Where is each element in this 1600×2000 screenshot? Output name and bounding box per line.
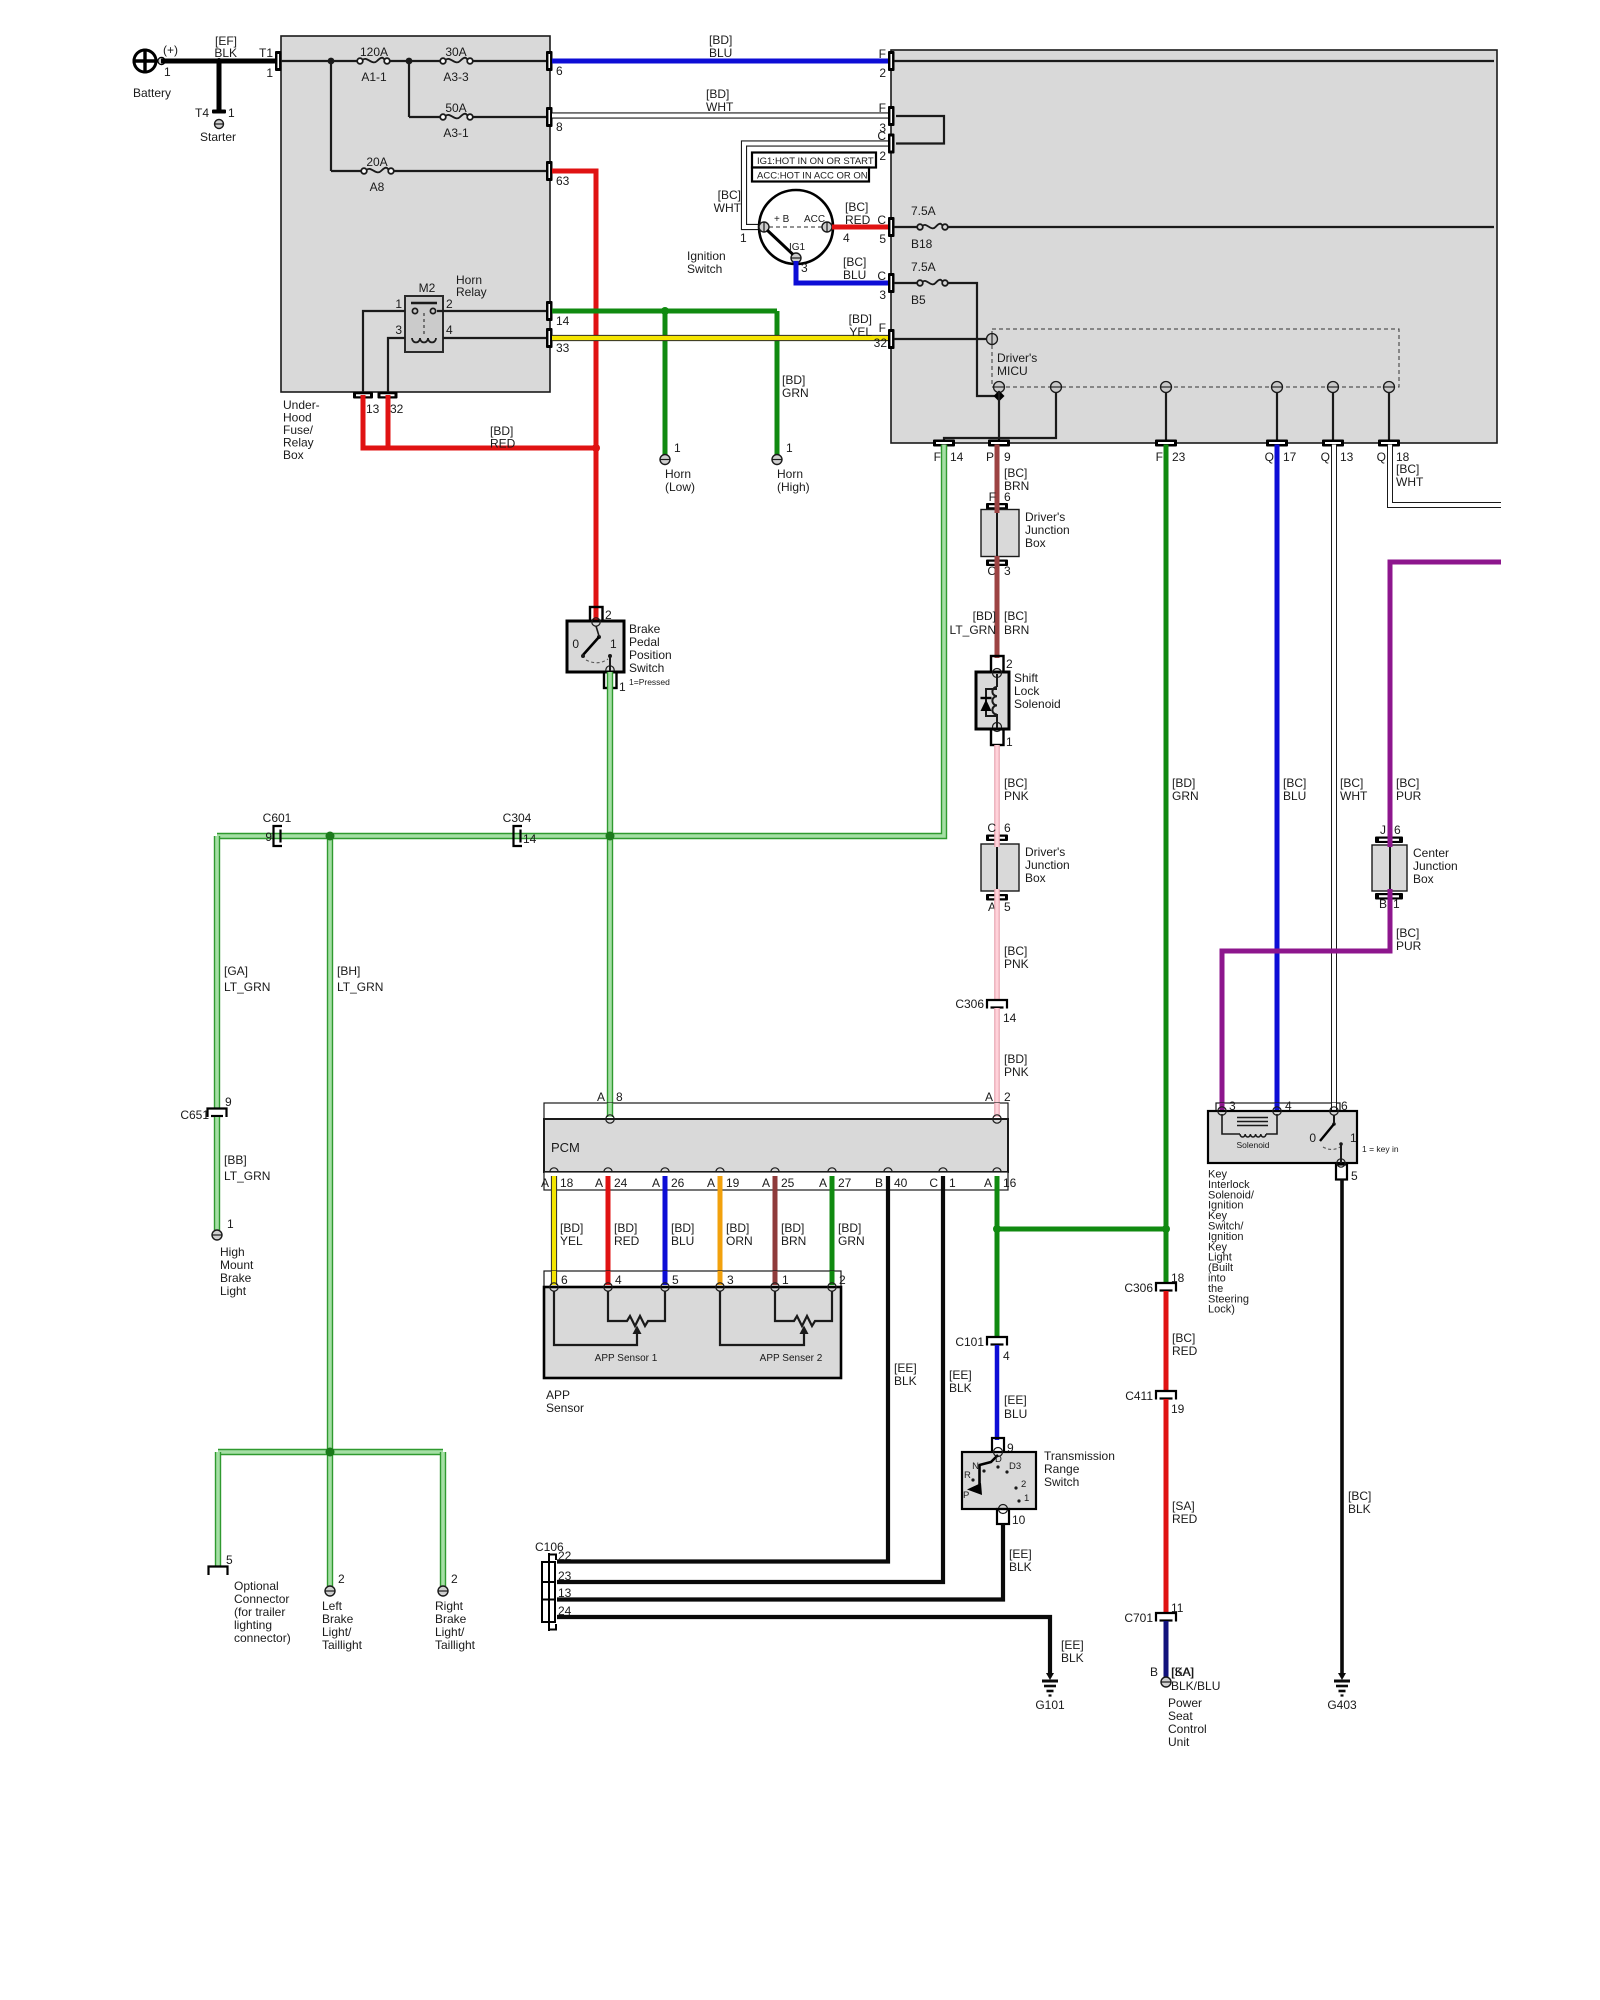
MICU terminal F23: [1161, 382, 1172, 393]
wire [EF] BLK battery to T1: [161, 34, 277, 61]
svg-text:Switch: Switch: [1044, 1475, 1079, 1489]
svg-text:[BC]: [BC]: [1396, 776, 1419, 790]
driver's junction box 2: [981, 844, 1070, 891]
svg-text:A: A: [595, 1176, 603, 1190]
svg-text:D: D: [995, 1454, 1002, 1465]
svg-text:8: 8: [556, 120, 563, 134]
svg-text:Lock): Lock): [1208, 1304, 1235, 1316]
main relay/fuse box (right, dash/interior unit): [891, 50, 1497, 443]
svg-text:0: 0: [572, 637, 579, 651]
svg-text:C: C: [877, 129, 886, 143]
svg-text:25: 25: [781, 1176, 795, 1190]
svg-text:Unit: Unit: [1168, 1735, 1190, 1749]
svg-text:Horn: Horn: [777, 467, 803, 481]
MICU terminal P9: [994, 382, 1005, 393]
svg-text:[EE]: [EE]: [894, 1361, 917, 1375]
svg-text:1: 1: [1393, 897, 1400, 911]
svg-text:3: 3: [395, 323, 402, 337]
wire relay pin2 to pin 14: [437, 310, 548, 312]
connector C601 pin 9: [263, 811, 292, 846]
svg-text:8: 8: [616, 1090, 623, 1104]
svg-text:Taillight: Taillight: [322, 1638, 363, 1652]
svg-text:7.5A: 7.5A: [911, 260, 936, 274]
svg-text:2: 2: [1004, 1090, 1011, 1104]
fuse 30A A3-3: [440, 45, 473, 84]
connector optional trailer pin 5: [209, 1553, 291, 1645]
svg-text:connector): connector): [234, 1631, 291, 1645]
connector pin 8: [546, 107, 563, 134]
svg-text:B5: B5: [911, 293, 926, 307]
key interlock solenoid / ignition key switch unit: [1208, 1107, 1357, 1163]
svg-text:BLK: BLK: [1009, 1560, 1032, 1574]
wire [BC] PNK solenoid to junction box 2: [997, 745, 1029, 836]
node lt_grn taillight junction: [326, 1448, 335, 1457]
svg-text:120A: 120A: [360, 45, 388, 59]
svg-text:A: A: [985, 1090, 993, 1104]
wire [BD] GRN pin14 to horns: [552, 311, 809, 455]
svg-text:[BD]: [BD]: [849, 312, 872, 326]
svg-text:[BC]: [BC]: [1283, 776, 1306, 790]
connector T1 pin 1: [259, 46, 282, 80]
wire battery to starter: [217, 61, 222, 111]
svg-text:A: A: [819, 1176, 827, 1190]
svg-text:RED: RED: [490, 437, 516, 451]
connector shift lock solenoid pin 2: [991, 656, 1013, 672]
svg-text:[BD]: [BD]: [560, 1221, 583, 1235]
connector C101 pin 4: [955, 1335, 1010, 1363]
svg-text:14: 14: [523, 832, 537, 846]
svg-text:PUR: PUR: [1396, 939, 1422, 953]
svg-text:14: 14: [1003, 1011, 1017, 1025]
svg-text:40: 40: [894, 1176, 908, 1190]
svg-text:Control: Control: [1168, 1722, 1207, 1736]
svg-text:G101: G101: [1035, 1698, 1065, 1712]
svg-text:[BC]: [BC]: [718, 188, 741, 202]
wire [BH] LT_GRN to taillights: [330, 836, 383, 1452]
svg-text:RED: RED: [845, 213, 871, 227]
svg-text:5: 5: [879, 232, 886, 246]
wire internal MICU to F14 pin: [944, 392, 1056, 442]
svg-text:16: 16: [1003, 1176, 1017, 1190]
svg-text:1: 1: [395, 297, 402, 311]
svg-text:IG1:HOT IN ON OR START: IG1:HOT IN ON OR START: [757, 156, 874, 167]
key interlock connector strip pins 3 4 6: [1216, 1099, 1348, 1113]
svg-text:WHT: WHT: [1340, 789, 1368, 803]
horn (high) terminal pin 1: [772, 441, 810, 494]
wire [BB] LT_GRN C651 to high mount brake light: [217, 1117, 270, 1230]
svg-text:A3-1: A3-1: [443, 126, 469, 140]
svg-text:6: 6: [1394, 823, 1401, 837]
svg-text:1: 1: [740, 231, 747, 245]
svg-text:BLK/BLU: BLK/BLU: [1171, 1679, 1220, 1693]
under-hood fuse/relay box: [281, 36, 550, 462]
wire lt_grn taillight distribution: [218, 1452, 443, 1586]
wire [EE] BLK C106 24 to G101: [557, 1617, 1084, 1676]
svg-text:[EE]: [EE]: [1061, 1638, 1084, 1652]
svg-text:[BC]: [BC]: [1004, 609, 1027, 623]
wire 20A branch: [331, 61, 548, 171]
svg-text:GRN: GRN: [838, 1234, 865, 1248]
wire [BC] WHT Q13 to key interlock pin 6: [1334, 446, 1368, 1110]
ground G101: [1035, 1673, 1065, 1712]
starter T4 pin 1: [195, 106, 236, 144]
svg-text:1: 1: [610, 637, 617, 651]
svg-text:MICU: MICU: [997, 364, 1028, 378]
wire internal MICU to P9 pin: [998, 392, 1000, 442]
svg-text:Mount: Mount: [220, 1258, 254, 1272]
svg-text:PNK: PNK: [1004, 1065, 1029, 1079]
svg-text:[GA]: [GA]: [224, 964, 248, 978]
wire internal MICU to Q13 pin: [1332, 392, 1334, 442]
svg-text:1: 1: [786, 441, 793, 455]
svg-text:F: F: [1156, 450, 1163, 464]
svg-text:YEL: YEL: [560, 1234, 583, 1248]
svg-text:Q: Q: [1321, 450, 1330, 464]
connector shift lock solenoid pin 1: [991, 729, 1013, 749]
ground G403: [1327, 1673, 1357, 1712]
wire relay pin4 to pin 33: [443, 337, 548, 339]
svg-text:Position: Position: [629, 648, 672, 662]
svg-text:(High): (High): [777, 480, 810, 494]
svg-text:[EE]: [EE]: [1009, 1547, 1032, 1561]
svg-text:2: 2: [1006, 657, 1013, 671]
svg-text:J: J: [1380, 823, 1386, 837]
wire [EE] BLK PCM B40 to C106 22: [557, 1176, 917, 1562]
node fusebox junction B: [406, 58, 413, 65]
wire [BD] PNK C306 to PCM A2: [997, 1008, 1029, 1118]
svg-text:A: A: [762, 1176, 770, 1190]
wire [BD] RED PCM A24 to APP 4: [608, 1176, 640, 1285]
svg-text:[BC]: [BC]: [1004, 944, 1027, 958]
connector pin 6: [546, 51, 563, 78]
node green horn junction: [661, 307, 669, 315]
svg-text:26: 26: [671, 1176, 685, 1190]
MICU terminal Q13: [1328, 382, 1339, 393]
svg-text:Junction: Junction: [1025, 523, 1070, 537]
fuse 50A A3-1: [440, 101, 473, 140]
svg-text:3: 3: [879, 288, 886, 302]
svg-text:3: 3: [727, 1273, 734, 1287]
svg-text:C411: C411: [1125, 1389, 1153, 1403]
wire [GA] LT_GRN to C651: [217, 836, 270, 1108]
svg-text:24: 24: [558, 1604, 572, 1618]
svg-text:[BD]: [BD]: [709, 33, 732, 47]
connector F3: [879, 101, 895, 135]
wire [SA] RED C411 to C701: [1166, 1399, 1198, 1613]
right brake light terminal pin 2: [435, 1572, 476, 1652]
PCM connector strip bottom: [541, 1172, 1017, 1190]
svg-text:[BD]: [BD]: [782, 373, 805, 387]
svg-text:Horn: Horn: [665, 467, 691, 481]
fuse 7.5A B5: [894, 260, 948, 307]
svg-text:ACC:HOT IN ACC OR ON: ACC:HOT IN ACC OR ON: [757, 171, 868, 182]
svg-text:18: 18: [560, 1176, 574, 1190]
fuse 20A A8: [361, 155, 394, 194]
svg-text:1=Pressed: 1=Pressed: [629, 677, 670, 687]
svg-text:A: A: [597, 1090, 605, 1104]
svg-text:[BC]: [BC]: [1396, 462, 1419, 476]
transmission range switch: [962, 1448, 1115, 1514]
brake pedal position switch: [567, 618, 672, 675]
svg-text:BLU: BLU: [843, 268, 866, 282]
wire [BD] ORN PCM A19 to APP 3: [720, 1176, 753, 1285]
svg-text:1: 1: [266, 66, 273, 80]
svg-text:M2: M2: [419, 281, 436, 295]
wire [BD] LT_GRN brake pedal switch to PCM A8: [607, 672, 613, 1118]
wire 50A branch: [409, 61, 548, 117]
battery: [133, 43, 179, 100]
APP sensor 2 potentiometer: [720, 1291, 832, 1364]
svg-text:Brake: Brake: [629, 622, 661, 636]
wire [BD] BLU pin6 to F2: [552, 33, 891, 61]
svg-text:4: 4: [1003, 1349, 1010, 1363]
wire [BD] RED pin63 to brake pedal switch: [361, 171, 597, 620]
connector Q18: [1377, 440, 1410, 465]
svg-text:Box: Box: [1413, 872, 1434, 886]
APP sensor: [544, 1283, 841, 1415]
svg-text:Starter: Starter: [200, 130, 236, 144]
svg-text:Driver's: Driver's: [1025, 510, 1065, 524]
svg-text:[EE]: [EE]: [949, 1368, 972, 1382]
wire internal MICU to Q17 pin: [1276, 392, 1278, 442]
svg-text:4: 4: [843, 231, 850, 245]
svg-text:B: B: [875, 1176, 883, 1190]
connector brake pedal switch pin 1: [604, 672, 670, 694]
svg-text:23: 23: [1172, 450, 1186, 464]
svg-text:Brake: Brake: [220, 1271, 252, 1285]
wire [EE] BLK transmission range switch to C106 13: [557, 1524, 1032, 1600]
svg-text:APP Sensor 1: APP Sensor 1: [595, 1353, 658, 1364]
svg-text:Optional: Optional: [234, 1579, 279, 1593]
connector Q13: [1321, 440, 1354, 465]
wire [BC] WHT C2 to ignition +B: [714, 144, 891, 228]
svg-text:6: 6: [561, 1273, 568, 1287]
center junction box: [1372, 845, 1458, 891]
svg-text:6: 6: [1004, 490, 1011, 504]
svg-text:BLU: BLU: [671, 1234, 694, 1248]
connector P9: [986, 440, 1011, 465]
svg-text:T1: T1: [259, 46, 273, 60]
wire fusebox feed bus: [281, 60, 548, 62]
svg-text:[BD]: [BD]: [726, 1221, 749, 1235]
wire internal B18 bus: [948, 226, 1494, 228]
svg-text:Seat: Seat: [1168, 1709, 1193, 1723]
svg-text:C306: C306: [955, 997, 984, 1011]
svg-text:[BC]: [BC]: [845, 200, 868, 214]
svg-text:C306: C306: [1124, 1281, 1153, 1295]
svg-text:[BC]: [BC]: [1348, 1489, 1371, 1503]
APP sensor 1 potentiometer: [554, 1291, 665, 1364]
svg-text:1: 1: [1006, 735, 1013, 749]
svg-text:2: 2: [1021, 1479, 1026, 1490]
svg-text:PUR: PUR: [1396, 789, 1422, 803]
svg-text:LT_GRN: LT_GRN: [224, 980, 270, 994]
svg-text:BLK: BLK: [894, 1374, 917, 1388]
svg-text:GRN: GRN: [1172, 789, 1199, 803]
svg-text:ORN: ORN: [726, 1234, 753, 1248]
svg-text:6: 6: [556, 64, 563, 78]
svg-text:D3: D3: [1009, 1461, 1021, 1472]
key interlock label: [1208, 1169, 1255, 1316]
svg-text:APP: APP: [546, 1388, 570, 1402]
PCM: [544, 1115, 1008, 1176]
svg-text:P: P: [986, 450, 994, 464]
svg-text:18: 18: [1171, 1271, 1185, 1285]
connector A5 driver's junction box 2: [986, 894, 1011, 914]
svg-text:Junction: Junction: [1413, 859, 1458, 873]
svg-text:7.5A: 7.5A: [911, 204, 936, 218]
connector F32: [874, 321, 895, 350]
svg-text:4: 4: [446, 323, 453, 337]
connector F2: [879, 47, 895, 80]
wire internal F3 to C2: [896, 116, 944, 144]
svg-text:Q: Q: [1265, 450, 1274, 464]
svg-text:4: 4: [615, 1273, 622, 1287]
svg-text:[BD]: [BD]: [781, 1221, 804, 1235]
svg-text:Box: Box: [1025, 536, 1046, 550]
wire [BD] LT_GRN F14 to distribution: [217, 446, 944, 836]
svg-text:[BD]: [BD]: [706, 87, 729, 101]
node lt_grn junction BH: [326, 832, 335, 841]
svg-text:3: 3: [1004, 564, 1011, 578]
svg-text:1: 1: [228, 106, 235, 120]
svg-text:Driver's: Driver's: [1025, 845, 1065, 859]
svg-text:11: 11: [1171, 1601, 1184, 1615]
svg-text:63: 63: [556, 174, 570, 188]
wire [BD] GRN PCM A27 to APP 2: [832, 1176, 865, 1285]
svg-text:9: 9: [225, 1095, 232, 1109]
svg-text:1: 1: [164, 65, 171, 79]
svg-text:A8: A8: [370, 180, 385, 194]
power seat control unit terminal pin 6: [1161, 1677, 1221, 1749]
svg-text:32: 32: [390, 402, 404, 416]
svg-text:2: 2: [451, 1572, 458, 1586]
svg-text:13: 13: [558, 1586, 572, 1600]
fuse 7.5A B18: [894, 204, 948, 251]
svg-text:[KA]: [KA]: [1172, 1665, 1195, 1679]
connector key interlock pin 5: [1336, 1159, 1358, 1183]
connector transmission range switch pin 10: [997, 1509, 1026, 1527]
svg-text:WHT: WHT: [714, 201, 742, 215]
svg-text:6: 6: [1004, 821, 1011, 835]
svg-text:14: 14: [950, 450, 964, 464]
svg-text:BRN: BRN: [1004, 623, 1029, 637]
wire [EE] BLU C101 to transmission range switch pin 9: [997, 1345, 1027, 1440]
high mount brake light terminal pin 1: [212, 1217, 255, 1298]
svg-text:ACC: ACC: [804, 214, 825, 225]
svg-text:Range: Range: [1044, 1462, 1080, 1476]
svg-text:+ B: + B: [774, 214, 790, 225]
svg-text:2: 2: [879, 149, 886, 163]
svg-text:1: 1: [1024, 1493, 1029, 1504]
wire relay pin3 to pin 32: [388, 338, 405, 392]
svg-text:C304: C304: [503, 811, 532, 825]
svg-text:G403: G403: [1327, 1698, 1357, 1712]
ignition switch note box ACC: [752, 168, 869, 182]
svg-text:2: 2: [446, 297, 453, 311]
switch inside key interlock: [1309, 1115, 1399, 1163]
svg-text:[BD]: [BD]: [1004, 1052, 1027, 1066]
svg-text:Ignition: Ignition: [687, 249, 726, 263]
wire [BC] PUR center junction box to key interlock pin 3: [1222, 900, 1422, 1110]
relay M2 horn relay: [395, 273, 486, 352]
svg-text:(Low): (Low): [665, 480, 695, 494]
connector J6 center junction box: [1375, 823, 1403, 843]
left brake light terminal pin 2: [322, 1572, 363, 1652]
svg-text:Transmission: Transmission: [1044, 1449, 1115, 1463]
wire internal MICU to F23 pin: [1165, 392, 1167, 442]
svg-text:24: 24: [614, 1176, 628, 1190]
svg-text:C701: C701: [1124, 1611, 1153, 1625]
svg-text:IG1: IG1: [789, 242, 806, 253]
connector C651 pin 9: [180, 1095, 232, 1122]
svg-text:C651: C651: [180, 1108, 209, 1122]
svg-text:BLU: BLU: [709, 46, 732, 60]
svg-text:LT_GRN: LT_GRN: [224, 1169, 270, 1183]
svg-text:[BC]: [BC]: [1004, 466, 1027, 480]
node green junction A16: [993, 1225, 1001, 1233]
svg-text:GRN: GRN: [782, 386, 809, 400]
svg-text:BLK: BLK: [1348, 1502, 1371, 1516]
wire crossings over connector bars: [944, 445, 1390, 904]
svg-text:B18: B18: [911, 237, 933, 251]
svg-text:2: 2: [839, 1273, 846, 1287]
svg-text:14: 14: [556, 314, 570, 328]
wire [BD] LT_GRN label: [950, 609, 996, 637]
svg-text:F: F: [934, 450, 941, 464]
wire [BC] PNK junction box 2 to C306: [997, 900, 1029, 1000]
svg-text:[BD]: [BD]: [838, 1221, 861, 1235]
wire [EE] BLK PCM C1 to C106 23: [557, 1176, 972, 1582]
svg-text:[BC]: [BC]: [1004, 776, 1027, 790]
svg-text:[BC]: [BC]: [1340, 776, 1363, 790]
svg-text:1: 1: [619, 680, 626, 694]
wire [BD] BLU PCM A26 to APP 5: [665, 1176, 694, 1285]
svg-text:F: F: [879, 101, 886, 115]
svg-text:WHT: WHT: [1396, 475, 1424, 489]
connector C304 pin 14: [503, 811, 537, 846]
connector C3: [877, 269, 894, 302]
svg-text:(for trailer: (for trailer: [234, 1605, 285, 1619]
svg-text:5: 5: [1004, 900, 1011, 914]
svg-text:LT_GRN: LT_GRN: [337, 980, 383, 994]
svg-text:13: 13: [1340, 450, 1354, 464]
svg-text:Lock: Lock: [1014, 684, 1040, 698]
svg-text:Shift: Shift: [1014, 671, 1039, 685]
svg-text:[BC]: [BC]: [843, 255, 866, 269]
connector pin 14: [546, 301, 570, 328]
wire [BD] GRN PCM A16 to C101: [997, 1176, 1166, 1337]
driver's junction box 1: [981, 510, 1070, 557]
wire [BD] WHT pin8 to F3: [552, 87, 891, 116]
svg-text:RED: RED: [614, 1234, 640, 1248]
svg-text:Box: Box: [1025, 871, 1046, 885]
svg-text:Switch: Switch: [629, 661, 664, 675]
svg-text:Light/: Light/: [435, 1625, 465, 1639]
wire [BC] BRN junction box to shift lock solenoid: [997, 566, 1029, 658]
connector pin 33: [546, 328, 570, 355]
connector Q17: [1265, 440, 1297, 465]
svg-text:[BC]: [BC]: [1172, 1331, 1195, 1345]
svg-text:1: 1: [674, 441, 681, 455]
svg-text:A: A: [541, 1176, 549, 1190]
svg-text:27: 27: [838, 1176, 852, 1190]
node red junction: [592, 444, 600, 452]
connector C701 pin 11: [1124, 1601, 1183, 1625]
svg-text:10: 10: [1012, 1513, 1026, 1527]
node lt_grn junction brake: [606, 832, 615, 841]
wire [BC] RED C306 to C411: [1166, 1291, 1198, 1391]
